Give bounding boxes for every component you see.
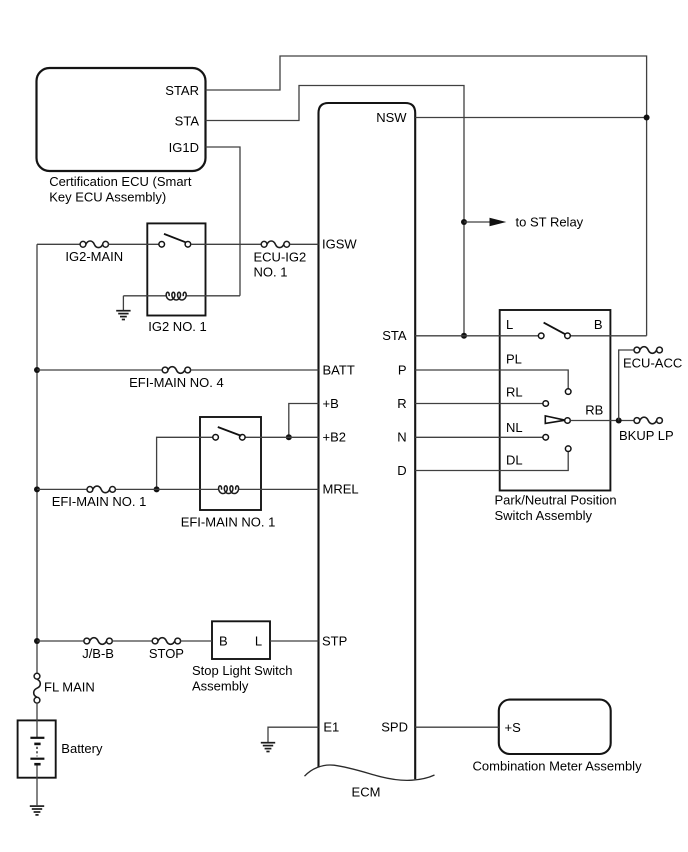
- wire +B branch: [289, 404, 319, 438]
- svg-text:RB: RB: [585, 402, 603, 417]
- wire N row to NL contact: [415, 436, 543, 438]
- wire SPD to combination meter: [415, 726, 499, 728]
- svg-text:STA: STA: [175, 113, 200, 128]
- node junction +B/+B2: [286, 434, 292, 440]
- Stop Light Switch Assembly box: [212, 621, 270, 659]
- svg-text:STAR: STAR: [165, 83, 199, 98]
- svg-text:EFI-MAIN NO. 1: EFI-MAIN NO. 1: [181, 515, 276, 530]
- svg-text:Combination Meter Assembly: Combination Meter Assembly: [473, 759, 643, 774]
- svg-text:L: L: [506, 317, 513, 332]
- wire to ST Relay branch: [464, 221, 490, 223]
- svg-text:FL MAIN: FL MAIN: [44, 680, 95, 695]
- wire battery negative to ground: [36, 766, 38, 806]
- svg-text:L: L: [255, 633, 262, 648]
- svg-text:BATT: BATT: [323, 362, 355, 377]
- svg-text:Park/Neutral Position: Park/Neutral Position: [495, 493, 617, 508]
- svg-text:IG1D: IG1D: [169, 140, 199, 155]
- wire P row to PL contact: [415, 370, 568, 389]
- svg-text:NO. 1: NO. 1: [254, 265, 288, 280]
- wire NSW: ECM NSW pin to right vertical: [415, 117, 646, 119]
- svg-text:STOP: STOP: [149, 646, 184, 661]
- ECM box U-ECM: [319, 103, 416, 779]
- contact DL circle: [565, 446, 571, 452]
- battery cell plates: [30, 737, 44, 739]
- wire fuse to ECM BATT: [191, 369, 319, 371]
- svg-text:+S: +S: [505, 720, 522, 735]
- svg-text:+B: +B: [323, 396, 339, 411]
- node junction MREL branch: [154, 486, 160, 492]
- selector arm (rotary contact): [545, 416, 565, 424]
- svg-text:P: P: [398, 362, 407, 377]
- Park/Neutral Position Switch Assembly box: [500, 310, 611, 491]
- svg-text:EFI-MAIN NO. 4: EFI-MAIN NO. 4: [129, 375, 224, 390]
- coil IG2 NO. 1: [166, 292, 186, 300]
- coil EFI-MAIN NO. 1: [219, 486, 239, 494]
- svg-text:D: D: [397, 463, 406, 478]
- ground IG2 relay: [116, 310, 130, 312]
- svg-text:ECU-IG2: ECU-IG2: [254, 249, 307, 264]
- svg-text:E1: E1: [323, 720, 339, 735]
- ground battery: [30, 805, 44, 807]
- svg-text:+B2: +B2: [323, 430, 347, 445]
- wire STP row trunk to J/B-B fuse: [37, 640, 84, 642]
- svg-text:Battery: Battery: [61, 741, 103, 756]
- wire to STOP fuse: [112, 640, 152, 642]
- relay EFI-MAIN NO. 1 box: [200, 417, 261, 510]
- svg-text:Stop Light Switch: Stop Light Switch: [192, 663, 292, 678]
- svg-text:IGSW: IGSW: [322, 237, 357, 252]
- node junction RB branch: [616, 418, 622, 424]
- node junction BATT row: [34, 367, 40, 373]
- wire fuse to coil to ECM MREL: [116, 488, 319, 490]
- wire STAR net: cert ECU STAR to top route down right side: [206, 56, 647, 336]
- svg-text:Switch Assembly: Switch Assembly: [495, 508, 593, 523]
- fuse ECU-IG2 NO. 1: [261, 241, 267, 247]
- Combination Meter Assembly box: [499, 700, 611, 754]
- svg-text:ECU-ACC: ECU-ACC: [623, 355, 682, 370]
- svg-text:IG2 NO. 1: IG2 NO. 1: [148, 319, 207, 334]
- svg-text:NSW: NSW: [376, 110, 407, 125]
- node junction NSW/STAR: [644, 115, 650, 121]
- wire fuse to relay contact: [108, 243, 158, 245]
- wire MREL row trunk to fuse: [37, 488, 87, 490]
- svg-text:J/B-B: J/B-B: [82, 646, 114, 661]
- fuse FL MAIN (vertical): [34, 673, 40, 679]
- wire BATT row to fuse: [37, 369, 162, 371]
- contact PL circle: [565, 389, 571, 395]
- contact RL circle: [543, 401, 549, 407]
- arrow to ST Relay: [490, 218, 507, 226]
- wire E1 to ground: [268, 727, 319, 742]
- svg-text:PL: PL: [506, 351, 522, 366]
- svg-text:Assembly: Assembly: [192, 679, 249, 694]
- wire left trunk from battery feed: [36, 244, 38, 673]
- contact RB circle: [565, 418, 571, 424]
- wire STOP fuse to stop light switch: [181, 640, 213, 642]
- fuse J/B-B: [84, 638, 90, 644]
- wire +B2 row to relay contact: [157, 437, 319, 489]
- svg-text:Key ECU Assembly): Key ECU Assembly): [49, 189, 166, 204]
- contact L circle: [538, 333, 544, 339]
- node junction trunk MREL row: [34, 486, 40, 492]
- ECM bottom wavy break line: [305, 765, 435, 780]
- wire fuse to battery: [36, 703, 38, 737]
- svg-text:to ST Relay: to ST Relay: [516, 215, 584, 230]
- node junction STA row: [461, 333, 467, 339]
- wire IGSW row from trunk to IG2-MAIN fuse: [37, 243, 80, 245]
- wire stop light switch to ECM STP: [270, 640, 319, 642]
- svg-text:EFI-MAIN NO. 1: EFI-MAIN NO. 1: [52, 494, 147, 509]
- svg-text:IG2-MAIN: IG2-MAIN: [65, 249, 123, 264]
- node junction ST relay branch: [461, 219, 467, 225]
- relay EFI contact circles: [213, 435, 219, 441]
- wire STA net: cert ECU STA to ST-relay vertical: [206, 86, 465, 336]
- wire RB branch up to ECU-ACC fuse: [619, 350, 634, 421]
- wire relay to ECU-IG2 fuse: [191, 243, 261, 245]
- wire B contact to right vertical: [570, 335, 646, 337]
- svg-text:DL: DL: [506, 453, 523, 468]
- fuse STOP: [152, 638, 158, 644]
- node junction STP row: [34, 638, 40, 644]
- Battery box: [18, 720, 56, 777]
- relay IG2 NO. 1 box: [147, 223, 205, 315]
- fuse IG2-MAIN: [80, 241, 86, 247]
- svg-text:MREL: MREL: [323, 482, 359, 497]
- wire STA row: ECM STA pin to park/neutral L contact: [415, 335, 538, 337]
- svg-text:NL: NL: [506, 420, 523, 435]
- relay IG2 contact circles: [159, 242, 165, 248]
- fuse BKUP LP: [634, 418, 640, 424]
- wire IG2 relay coil line and ground branch: [123, 296, 240, 311]
- fuse EFI-MAIN NO. 1: [87, 487, 93, 493]
- svg-text:STA: STA: [382, 328, 407, 343]
- svg-text:STP: STP: [322, 633, 347, 648]
- svg-text:B: B: [219, 633, 228, 648]
- svg-text:SPD: SPD: [381, 720, 408, 735]
- relay EFI switch blade: [218, 427, 242, 436]
- Certification ECU (Smart Key ECU Assembly) box: [37, 68, 206, 171]
- wire fuse to ECM IGSW: [290, 243, 319, 245]
- switch blade L-B: [544, 323, 566, 335]
- wire RB to BKUP LP fuse: [570, 420, 634, 422]
- contact NL circle: [543, 435, 549, 441]
- wire R row to RL contact: [415, 403, 543, 405]
- svg-text:ECM: ECM: [352, 785, 381, 800]
- fuse EFI-MAIN NO. 4: [162, 367, 168, 373]
- fuse ECU-ACC: [634, 347, 640, 353]
- contact B circle: [565, 333, 571, 339]
- svg-text:N: N: [397, 430, 406, 445]
- svg-text:B: B: [594, 317, 603, 332]
- svg-text:RL: RL: [506, 385, 523, 400]
- ground E1: [261, 742, 275, 744]
- svg-text:BKUP LP: BKUP LP: [619, 428, 674, 443]
- svg-text:R: R: [397, 396, 406, 411]
- wire IG1D: cert ECU IG1D down to IG2 relay coil: [206, 147, 241, 296]
- relay IG2 switch blade: [164, 234, 186, 242]
- wire D row to DL contact: [415, 452, 568, 471]
- svg-text:Certification ECU (Smart: Certification ECU (Smart: [49, 174, 192, 189]
